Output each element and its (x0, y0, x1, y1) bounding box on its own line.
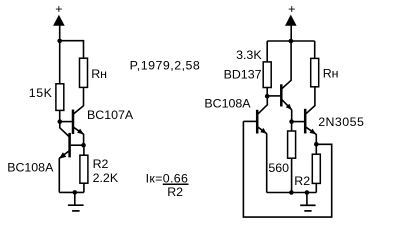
transistor Q2 BC108A (left, mirrored) (7, 122, 83, 175)
svg-text:R2: R2 (294, 174, 310, 188)
svg-text:Rн: Rн (323, 67, 339, 81)
node G (2N3055 base / 560 top) (289, 119, 294, 124)
wire: BD137 emitter down to node G (291, 110, 293, 122)
wire: 15K bottom to node B (59, 110, 61, 121)
svg-text:Iк=0.66: Iк=0.66 (146, 172, 189, 186)
node C (R2 top / BC108A base) (81, 143, 86, 148)
wire: Q2 emitter down to ground rail (58, 158, 60, 193)
transistor Q3 BD137 (224, 41, 292, 110)
node J (ground tap, right) (305, 190, 310, 195)
formula Iк = 0.66 / R2 (146, 172, 189, 199)
svg-text:560: 560 (268, 161, 289, 175)
wire: inner ground rail (right) (267, 192, 317, 194)
wire: supply rail to Rн branch (left) (60, 41, 84, 59)
wire: feedback loop (node H to Q5 base) (243, 121, 331, 217)
resistor R2 (right) (294, 144, 320, 192)
power V+ left (53, 2, 65, 41)
svg-text:BD137: BD137 (224, 67, 262, 81)
svg-text:BC108A: BC108A (7, 161, 54, 175)
wire: 2N3055 emitter down to node H (315, 134, 317, 144)
svg-text:+: + (55, 2, 62, 16)
svg-text:BC108A: BC108A (204, 97, 251, 111)
wire: Q1 emitter down to node C (83, 134, 85, 145)
ground (left) (68, 192, 84, 211)
power V+ right (285, 2, 297, 41)
node A (supply junction, left) (57, 39, 62, 44)
transistor Q4 2N3055 (292, 87, 365, 135)
svg-text:15K: 15K (29, 86, 53, 100)
resistor 3.3K (236, 48, 271, 88)
resistor 15K (29, 84, 64, 111)
transistor Q5 BC108A (right) (204, 96, 267, 134)
svg-text:3.3K: 3.3K (236, 48, 262, 62)
svg-text:R2: R2 (93, 157, 109, 171)
wire: 3.3K bottom to node F (266, 88, 268, 97)
wire: Q5 emitter down to inner rail (266, 134, 268, 193)
svg-text:Rн: Rн (91, 67, 107, 81)
wire: supply rail (right) (267, 40, 315, 42)
resistor 560 (268, 122, 295, 193)
wire: supply down to 15K (59, 41, 61, 84)
svg-text:2N3055: 2N3055 (318, 115, 364, 129)
node D (ground tap, left) (73, 190, 78, 195)
resistor Rн (right) (311, 41, 339, 87)
ground (right) (300, 193, 315, 211)
resistor Rн (left) (80, 58, 107, 87)
node F (BD137 base node) (265, 94, 270, 99)
wire: rail down to 3.3K (266, 41, 268, 62)
svg-text:2.2K: 2.2K (93, 171, 119, 185)
svg-text:+: + (288, 2, 295, 16)
node H (2N3055 emitter / R2 top) (314, 142, 319, 147)
svg-text:BC107A: BC107A (87, 108, 134, 122)
node B (BC107A base node) (58, 119, 63, 124)
node E (supply junction, right) (289, 39, 294, 44)
resistor R2 2.2K (left) (80, 145, 119, 192)
node I (560 bottom) (289, 190, 294, 195)
wire: ground rail (left) (59, 191, 84, 193)
transistor Q1 BC107A (60, 87, 134, 134)
svg-text:P,1979,2,58: P,1979,2,58 (130, 59, 201, 73)
svg-text:R2: R2 (167, 185, 183, 199)
